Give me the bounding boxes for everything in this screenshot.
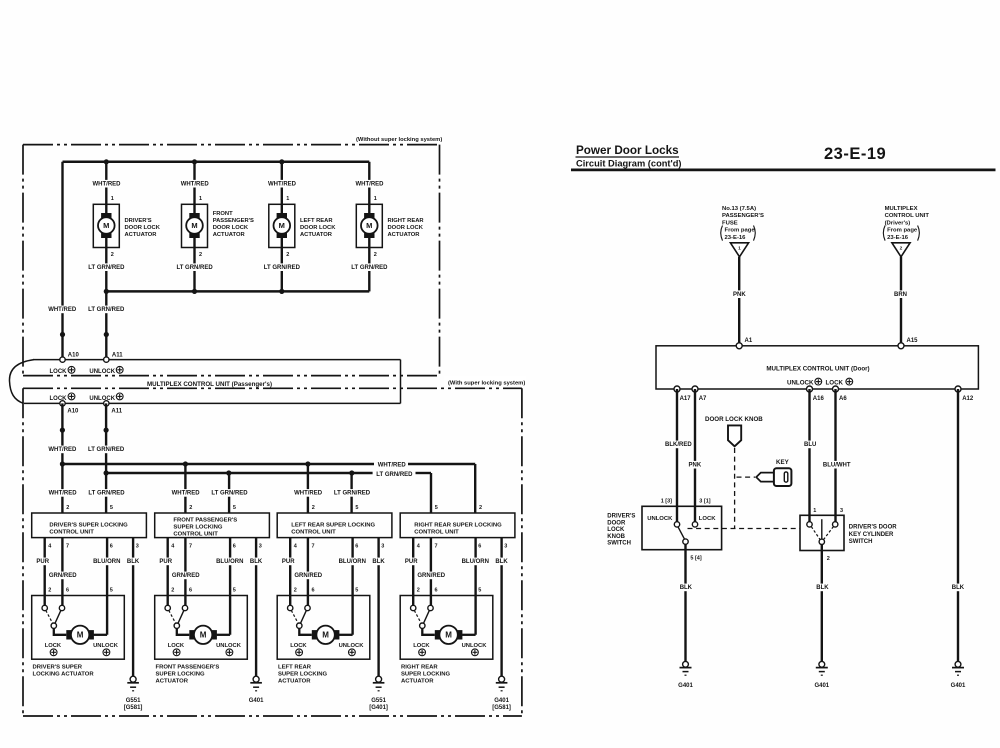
wire motor to pin5 (driver's super locking actuator) <box>94 634 108 636</box>
enclosure border (Without super locking system) top <box>23 144 440 146</box>
svg-text:BLU/ORN: BLU/ORN <box>93 559 120 565</box>
switch arm dashed left (key cylinder) <box>811 527 820 540</box>
ground G551 (driver's super locking actuator) <box>124 676 143 711</box>
svg-text:DOOR: DOOR <box>607 520 626 526</box>
svg-text:KNOB: KNOB <box>607 534 625 540</box>
label MULTIPLEX CONTROL UNIT (Passenger's) <box>147 381 272 388</box>
svg-text:2: 2 <box>286 252 289 258</box>
pin A10 terminal circle (lower row) <box>60 401 65 406</box>
svg-text:KEY CYLINDER: KEY CYLINDER <box>849 532 894 538</box>
pin 2 (front passenger's super locking actuator) <box>171 588 174 594</box>
svg-text:BLK: BLK <box>372 559 385 565</box>
wire motor to pin5 (front passenger's super locking actuator) <box>217 634 231 636</box>
svg-text:PUR: PUR <box>159 559 172 565</box>
multiplex control unit (Passenger's) box bottom edge <box>24 402 401 404</box>
svg-text:DOOR LOCK: DOOR LOCK <box>300 225 336 231</box>
junction top bus at driver's actuator <box>104 159 109 164</box>
pin 6 (left rear super locking control unit) <box>355 543 358 549</box>
pin 2 (right rear super locking control unit) <box>479 505 482 511</box>
ground G401 (right rear super locking actuator) <box>492 676 511 711</box>
svg-text:7: 7 <box>66 543 69 549</box>
pin 5 (right rear super locking control unit) <box>435 505 438 511</box>
svg-text:4: 4 <box>48 543 52 549</box>
svg-text:A17: A17 <box>680 396 692 402</box>
label BRN <box>893 290 909 298</box>
svg-text:WHT/RED: WHT/RED <box>48 307 77 313</box>
pin 4 (driver's super locking control unit) <box>48 543 52 549</box>
junction LT GRN/RED bus at driver's unit <box>104 470 109 475</box>
svg-text:FRONT: FRONT <box>213 211 233 217</box>
junction bottom bus at left rear actuator <box>279 289 284 294</box>
svg-text:A11: A11 <box>112 353 123 359</box>
svg-text:A12: A12 <box>962 396 974 402</box>
pin 6 (front passenger's super locking actuator) <box>189 588 192 594</box>
svg-text:LEFT REAR: LEFT REAR <box>300 218 333 224</box>
svg-text:A10: A10 <box>67 408 79 414</box>
wire LT GRN/RED distribution bus <box>106 472 431 474</box>
wire common to motor (left rear super locking actuator) <box>299 628 312 634</box>
svg-text:6: 6 <box>478 543 481 549</box>
svg-text:G551: G551 <box>126 698 141 704</box>
svg-text:5: 5 <box>233 505 236 511</box>
pin 1 (driver's door lock) <box>111 196 114 202</box>
svg-text:7: 7 <box>189 543 192 549</box>
svg-text:5: 5 <box>355 588 358 594</box>
svg-text:WHT/RED: WHT/RED <box>48 447 77 453</box>
connector triangle 2 (from driver's MCU) <box>892 243 910 257</box>
contact LOCK circle (knob switch) <box>692 522 697 527</box>
wire pin2 to LT GRN/RED bus <box>193 238 195 291</box>
splice on A10 wire <box>60 332 65 337</box>
pin A16 terminal circle <box>807 386 813 392</box>
svg-text:ACTUATOR: ACTUATOR <box>388 232 421 238</box>
wire common to motor (driver's super locking actuator) <box>54 628 67 634</box>
svg-text:SUPER LOCKING: SUPER LOCKING <box>401 672 451 678</box>
label DOOR LOCK KNOB <box>705 416 763 423</box>
svg-text:DOOR LOCK KNOB: DOOR LOCK KNOB <box>705 416 763 423</box>
svg-text:PASSENGER'S: PASSENGER'S <box>722 213 764 219</box>
svg-text:1: 1 <box>374 196 377 202</box>
wire LT GRN/RED drop to right rear super locking control unit <box>430 473 432 513</box>
label BLK (right rear super locking control unit) <box>494 558 509 566</box>
wire pin1 drop to front passenger's door lock actuator <box>193 162 195 213</box>
switch arm dashed right (key cylinder) <box>824 527 834 540</box>
pin A12 terminal circle <box>955 386 961 392</box>
label WHT/RED (driver's door lock) <box>92 180 122 188</box>
actuator box left rear super locking actuator <box>277 596 370 660</box>
pin A17 terminal circle <box>674 386 680 392</box>
label DRIVER'S DOOR KEY CYLINDER SWITCH <box>849 525 897 545</box>
pin 2 (right rear door lock) <box>374 252 377 258</box>
svg-text:3: 3 <box>136 543 139 549</box>
enclosure border (Without) right <box>439 145 441 376</box>
pin 7 (right rear super locking control unit) <box>435 543 438 549</box>
svg-text:2: 2 <box>199 252 202 258</box>
actuator box driver's super locking actuator <box>32 596 125 660</box>
svg-text:DOOR LOCK: DOOR LOCK <box>388 225 424 231</box>
label left rear super locking control unit <box>291 522 375 535</box>
switch common contact (right rear super locking actuator) <box>420 623 425 628</box>
svg-text:GRN/RED: GRN/RED <box>49 573 77 579</box>
svg-text:UNLOCK: UNLOCK <box>93 643 119 649</box>
svg-text:BLU/ORN: BLU/ORN <box>216 559 243 565</box>
svg-text:SUPER LOCKING: SUPER LOCKING <box>173 525 223 531</box>
svg-text:RIGHT REAR: RIGHT REAR <box>401 665 438 671</box>
svg-text:From page: From page <box>887 228 918 234</box>
wire BLK/RED A17 to knob switch <box>676 389 678 522</box>
label left rear super locking actuator <box>278 665 328 685</box>
control unit U1 driver's super locking control unit <box>32 513 147 538</box>
pin A6 terminal circle <box>833 386 839 392</box>
switch common contact (left rear super locking actuator) <box>297 623 302 628</box>
svg-text:5: 5 <box>110 588 113 594</box>
wire pin3 BLK to ground (front passenger's super locking control unit) <box>255 538 257 677</box>
label PUR (left rear super locking control unit) <box>281 558 296 566</box>
svg-text:Circuit Diagram (cont'd): Circuit Diagram (cont'd) <box>576 158 682 168</box>
svg-text:(With super locking system): (With super locking system) <box>448 381 525 387</box>
svg-text:2: 2 <box>417 588 420 594</box>
svg-text:FUSE: FUSE <box>722 220 738 226</box>
pin A1 terminal circle <box>736 343 742 349</box>
svg-text:2: 2 <box>374 252 377 258</box>
ground G401 (A12) <box>951 661 966 689</box>
svg-text:1: 1 <box>738 245 741 251</box>
svg-text:ACTUATOR: ACTUATOR <box>401 679 434 685</box>
pin 6 (front passenger's super locking control unit) <box>233 543 236 549</box>
pin A10 terminal circle (upper row) <box>60 357 65 362</box>
svg-text:G401: G401 <box>249 698 264 704</box>
label WHT/RED (left rear super locking control unit) <box>293 489 323 497</box>
wire pin4 PUR (front passenger's super locking control unit) <box>166 538 168 606</box>
motor M3 <box>274 213 291 238</box>
pin 2 (front passenger's super locking control unit) <box>189 505 192 511</box>
wire pin1 drop to left rear door lock actuator <box>281 162 283 213</box>
wire pin7 GRN/RED (driver's super locking control unit) <box>61 538 63 606</box>
svg-text:M: M <box>279 221 285 230</box>
pin 2 (driver's super locking control unit) <box>66 505 69 511</box>
subtitle Circuit Diagram (cont'd) <box>576 158 682 168</box>
wire A11 to driver's super locking control unit pin 5 <box>105 403 107 513</box>
pin A11 terminal circle (upper row) <box>104 357 109 362</box>
svg-text:GRN/RED: GRN/RED <box>172 573 200 579</box>
switch arm dashed (left rear super locking actuator) <box>291 610 298 623</box>
svg-text:A15: A15 <box>907 338 919 344</box>
label PUR (right rear super locking control unit) <box>404 558 419 566</box>
label WHT/RED (bus) <box>378 463 407 469</box>
svg-text:(Driver's): (Driver's) <box>885 220 911 226</box>
wire pin7 GRN/RED (right rear super locking control unit) <box>430 538 432 606</box>
svg-text:G401: G401 <box>814 683 829 689</box>
wire pin4 PUR (right rear super locking control unit) <box>412 538 414 606</box>
svg-text:UNLOCK: UNLOCK <box>89 396 115 402</box>
motor (left rear super locking actuator) <box>312 626 340 644</box>
pin 1 (front passenger's door lock) <box>199 196 202 202</box>
pin 2 (left rear super locking control unit) <box>312 505 315 511</box>
wire PNK A7 to knob switch <box>694 389 696 522</box>
svg-text:6: 6 <box>233 543 236 549</box>
junction LT GRN/RED bus at left rear unit <box>349 470 354 475</box>
wire pin6 BLU/ORN (right rear super locking control unit) <box>474 538 476 635</box>
svg-text:M: M <box>77 631 84 640</box>
svg-text:[G581]: [G581] <box>492 705 511 711</box>
label WHT/RED (left rear door lock) <box>267 180 297 188</box>
svg-text:BLK: BLK <box>952 585 965 591</box>
label LOCK + (right rear super locking actuator) <box>413 643 430 656</box>
svg-text:WHT/RED: WHT/RED <box>378 463 407 469</box>
svg-text:LOCKING ACTUATOR: LOCKING ACTUATOR <box>33 672 95 678</box>
label driver's door lock actuator <box>125 218 161 238</box>
control unit U3 left rear super locking control unit <box>277 513 392 538</box>
svg-text:WHT/RED: WHT/RED <box>181 181 210 187</box>
pin A11 terminal circle (lower row) <box>104 401 109 406</box>
junction top bus at front passenger's actuator <box>192 159 197 164</box>
driver's door key cylinder switch box <box>800 515 844 550</box>
junction LT GRN/RED bus at front passenger unit <box>226 470 231 475</box>
svg-text:LT GRN/RED: LT GRN/RED <box>351 265 388 271</box>
svg-text:MULTIPLEX: MULTIPLEX <box>885 206 918 212</box>
label BLK (A12 ground wire) <box>951 584 966 592</box>
svg-text:SWITCH: SWITCH <box>849 539 873 545</box>
svg-text:2: 2 <box>171 588 174 594</box>
wire WHT/RED drop to left rear super locking control unit <box>307 464 309 513</box>
wire pin2 to LT GRN/RED bus <box>368 238 370 291</box>
label WHT/RED (below A10) <box>47 446 77 454</box>
pin 5 (left rear super locking control unit) <box>355 505 358 511</box>
svg-text:Power Door Locks: Power Door Locks <box>576 144 679 157</box>
enclosure border (Without) bottom <box>23 375 440 377</box>
svg-text:BLK: BLK <box>495 559 508 565</box>
svg-text:A11: A11 <box>111 408 122 414</box>
label LOCK + (row 2) <box>50 393 75 402</box>
label MULTIPLEX CONTROL UNIT (Driver's) (From page 23-E-16) <box>883 206 929 241</box>
svg-text:5: 5 <box>355 505 358 511</box>
switch arm solid (left rear super locking actuator) <box>300 610 306 623</box>
svg-text:LT GRN/RED: LT GRN/RED <box>88 447 125 453</box>
pin A12 <box>962 396 974 402</box>
svg-text:2: 2 <box>312 505 315 511</box>
ground G401 (key cylinder switch) <box>814 661 829 689</box>
switch arm solid (right rear super locking actuator) <box>423 610 429 623</box>
splice on A11 wire <box>104 332 109 337</box>
wire A10 to driver's super locking control unit pin 2 <box>61 403 63 513</box>
common contact circle (knob switch) <box>683 539 688 544</box>
wire pin2 to LT GRN/RED bus <box>281 238 283 291</box>
pin 6 (driver's super locking control unit) <box>110 543 113 549</box>
label driver's super locking control unit <box>49 522 128 535</box>
motor (driver's super locking actuator) <box>66 626 94 644</box>
wire pin1 drop to right rear door lock actuator <box>368 162 370 213</box>
svg-text:ACTUATOR: ACTUATOR <box>300 232 333 238</box>
svg-text:2: 2 <box>189 505 192 511</box>
switch arm dashed (right rear super locking actuator) <box>414 610 421 623</box>
svg-text:BLU/ORN: BLU/ORN <box>339 559 366 565</box>
svg-text:1: 1 <box>813 508 816 514</box>
driver's door lock knob switch box <box>642 506 722 549</box>
svg-text:1: 1 <box>286 196 289 202</box>
wire LT GRN/RED bottom bus <box>106 290 369 293</box>
svg-text:LEFT REAR SUPER LOCKING: LEFT REAR SUPER LOCKING <box>291 522 375 528</box>
enclosure border (With) right <box>521 388 523 716</box>
wire common to motor (front passenger's super locking actuator) <box>177 628 190 634</box>
svg-text:DOOR LOCK: DOOR LOCK <box>213 225 249 231</box>
svg-text:LOCK: LOCK <box>45 643 62 649</box>
label UNLOCK + (left rear super locking actuator) <box>339 643 365 656</box>
svg-text:2: 2 <box>294 588 297 594</box>
svg-text:BLK: BLK <box>816 585 829 591</box>
label UNLOCK (knob switch) <box>647 516 673 522</box>
svg-text:LEFT REAR: LEFT REAR <box>278 665 312 671</box>
page number 23-E-19 <box>824 145 886 163</box>
switch common contact (driver's super locking actuator) <box>51 623 56 628</box>
pin 2 (left rear super locking actuator) <box>294 588 297 594</box>
svg-text:BLK: BLK <box>250 559 263 565</box>
junction WHT/RED bus at driver's unit <box>60 461 65 466</box>
svg-text:LT GRN/RED: LT GRN/RED <box>88 265 125 271</box>
label LT GRN/RED (driver's super locking control unit) <box>87 489 126 497</box>
header rule <box>571 168 996 171</box>
svg-text:6: 6 <box>355 543 358 549</box>
svg-text:PUR: PUR <box>282 559 295 565</box>
wire BLK A12 to ground <box>957 389 959 662</box>
wire WHT/RED top bus <box>63 161 370 164</box>
wire common to motor (right rear super locking actuator) <box>422 628 435 634</box>
svg-text:2: 2 <box>827 556 830 562</box>
svg-text:CONTROL UNIT: CONTROL UNIT <box>173 532 218 538</box>
svg-text:LOCK: LOCK <box>50 369 68 375</box>
wire BLK knob switch to ground <box>684 544 686 661</box>
pin 4 (left rear super locking control unit) <box>294 543 298 549</box>
label LT GRN/RED (left rear door lock) <box>263 263 302 271</box>
wire pin3 BLK to ground (driver's super locking control unit) <box>132 538 134 677</box>
pin 7 (front passenger's super locking control unit) <box>189 543 192 549</box>
svg-text:BLU: BLU <box>804 442 816 448</box>
label BLK/RED <box>664 441 692 449</box>
label WHT/RED (front passenger's door lock) <box>180 180 210 188</box>
svg-text:G401: G401 <box>494 698 509 704</box>
wire motor to pin5 (right rear super locking actuator) <box>462 634 476 636</box>
switch arm dashed (front passenger's super locking actuator) <box>169 610 176 623</box>
mech link key dashed <box>737 476 756 478</box>
enclosure border (With) bottom <box>23 715 522 717</box>
svg-text:[G401]: [G401] <box>369 705 388 711</box>
svg-text:SUPER LOCKING: SUPER LOCKING <box>278 672 328 678</box>
switch contact pin6 (right rear super locking actuator) <box>428 605 433 610</box>
svg-text:PUR: PUR <box>36 559 49 565</box>
switch contact pin6 (front passenger's super locking actuator) <box>182 605 187 610</box>
svg-text:A10: A10 <box>68 353 80 359</box>
svg-text:6: 6 <box>435 588 438 594</box>
motor M1 <box>98 213 115 238</box>
svg-text:WHT/RED: WHT/RED <box>172 491 201 497</box>
svg-text:GRN/RED: GRN/RED <box>294 573 322 579</box>
svg-text:MULTIPLEX CONTROL UNIT (Door): MULTIPLEX CONTROL UNIT (Door) <box>766 366 869 373</box>
label BLU <box>803 441 817 449</box>
motor M4 <box>361 213 378 238</box>
label BLK (front passenger's super locking control unit) <box>249 558 264 566</box>
label UNLOCK + (driver's super locking actuator) <box>93 643 119 656</box>
svg-text:A1: A1 <box>745 338 753 344</box>
multiplex control unit (Passenger's) box left break squiggle <box>9 360 34 404</box>
label BLK (knob switch ground wire) <box>679 584 694 592</box>
door lock knob symbol <box>728 425 741 446</box>
label LT GRN/RED (below A11) <box>87 446 126 454</box>
svg-text:M: M <box>103 221 109 230</box>
svg-text:CONTROL UNIT: CONTROL UNIT <box>49 530 94 536</box>
svg-text:LOCK: LOCK <box>699 516 716 522</box>
wire pin6 BLU/ORN (front passenger's super locking control unit) <box>229 538 231 635</box>
svg-text:A16: A16 <box>813 396 825 402</box>
control unit U2 front passenger's super locking control unit <box>155 513 270 538</box>
wire WHT/RED drop to front passenger's super locking control unit <box>184 464 186 513</box>
svg-text:4: 4 <box>171 543 175 549</box>
svg-text:DOOR LOCK: DOOR LOCK <box>125 225 161 231</box>
svg-text:1 [3]: 1 [3] <box>661 499 672 505</box>
pin A7 <box>699 396 707 402</box>
actuator box M4 right rear door lock <box>356 204 382 247</box>
svg-text:[G581]: [G581] <box>124 705 143 711</box>
svg-text:M: M <box>191 221 197 230</box>
label front passenger's super locking control unit <box>173 518 237 538</box>
junction top bus at left rear actuator <box>279 159 284 164</box>
mech link knob vertical dashed <box>734 448 736 529</box>
svg-text:FRONT PASSENGER'S: FRONT PASSENGER'S <box>156 665 220 671</box>
multiplex control unit (Passenger's) box right edge <box>400 360 402 404</box>
pin A16 <box>813 396 825 402</box>
pin 5 (driver's super locking actuator) <box>110 588 113 594</box>
wire pin4 PUR (left rear super locking control unit) <box>289 538 291 606</box>
mech link knob-to-key-cylinder dashed <box>688 528 800 530</box>
label LT GRN/RED (left rear super locking control unit) <box>333 489 372 497</box>
junction WHT/RED bus at front passenger unit <box>183 461 188 466</box>
pin A1 <box>745 338 753 344</box>
pin 2 (driver's super locking actuator) <box>48 588 51 594</box>
actuator box M2 front passenger's door lock <box>182 204 208 247</box>
svg-text:DRIVER'S SUPER LOCKING: DRIVER'S SUPER LOCKING <box>49 522 128 528</box>
pin 2 (driver's door lock) <box>111 252 114 258</box>
pin 4 (right rear super locking control unit) <box>417 543 421 549</box>
label WHT/RED (A10 feed) <box>47 306 77 314</box>
pin 6 (left rear super locking actuator) <box>312 588 315 594</box>
label KEY <box>776 459 790 466</box>
label UNLOCK + LOCK + (Door MCU) <box>787 378 853 386</box>
wire BLK key cylinder to ground <box>821 545 823 662</box>
svg-text:BLK: BLK <box>680 585 693 591</box>
svg-text:LOCK: LOCK <box>290 643 307 649</box>
wire WHT/RED distribution bus <box>62 463 475 465</box>
multiplex control unit (Door) box <box>656 346 978 389</box>
svg-text:A7: A7 <box>699 396 707 402</box>
label BLK (driver's super locking control unit) <box>126 558 140 566</box>
wire LT GRN/RED drop to front passenger's super locking control unit <box>228 473 230 513</box>
svg-text:3 [1]: 3 [1] <box>699 499 710 505</box>
switch contact pin2 (front passenger's super locking actuator) <box>165 605 170 610</box>
svg-text:BLU/WHT: BLU/WHT <box>823 462 851 468</box>
ground G401 (front passenger's super locking actuator) <box>249 676 264 704</box>
label right rear super locking actuator <box>401 665 451 685</box>
switch arm dashed (driver's super locking actuator) <box>46 610 53 623</box>
label right rear door lock actuator <box>388 218 425 238</box>
svg-text:2: 2 <box>111 252 114 258</box>
svg-text:SWITCH: SWITCH <box>607 541 631 547</box>
label LT GRN/RED (A11 feed) <box>87 306 126 314</box>
wire pin6 BLU/ORN (left rear super locking control unit) <box>351 538 353 635</box>
switch arm (knob switch) <box>678 527 685 540</box>
pin 3 (right rear super locking control unit) <box>504 543 507 549</box>
label LOCK (knob switch) <box>699 516 716 522</box>
pin A17 <box>680 396 692 402</box>
svg-text:ACTUATOR: ACTUATOR <box>278 679 311 685</box>
wire WHT/RED to A10 (passenger MCU) <box>61 162 63 358</box>
